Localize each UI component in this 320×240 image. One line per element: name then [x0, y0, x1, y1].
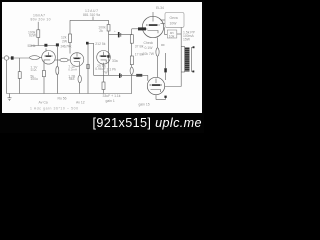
- svg-text:62W: 62W: [29, 34, 37, 38]
- svg-text:Av Ca: Av Ca: [39, 101, 48, 105]
- svg-text:15W: 15W: [183, 38, 191, 42]
- svg-text:gain 15: gain 15: [139, 102, 150, 106]
- svg-text:2k: 2k: [99, 29, 103, 33]
- svg-text:100u: 100u: [30, 77, 38, 81]
- svg-text:531.1k: 531.1k: [28, 44, 36, 48]
- svg-text:10W: 10W: [170, 22, 178, 26]
- svg-text:10k 7W: 10k 7W: [143, 52, 155, 56]
- svg-text:Geva: Geva: [170, 16, 178, 20]
- svg-text:1mA: 1mA: [30, 68, 36, 72]
- svg-text:33a: 33a: [112, 59, 118, 63]
- svg-text:246.7Rk: 246.7Rk: [61, 44, 72, 48]
- svg-text:212 5k: 212 5k: [95, 42, 105, 46]
- svg-text:gain 1: gain 1: [106, 99, 115, 103]
- svg-text:33uF + 1.1k: 33uF + 1.1k: [103, 94, 121, 98]
- svg-text:0.2mA: 0.2mA: [68, 67, 77, 71]
- svg-text:+: +: [114, 29, 116, 33]
- svg-text:12AU7: 12AU7: [85, 9, 98, 13]
- svg-text:5k4: 5k4: [69, 77, 75, 81]
- svg-text:1 Adc gain 36*10 ~ 500: 1 Adc gain 36*10 ~ 500: [30, 106, 78, 110]
- svg-text:Av 12: Av 12: [76, 100, 85, 104]
- svg-text:80v 20v 10: 80v 20v 10: [31, 18, 51, 22]
- svg-text:Check: Check: [144, 41, 154, 45]
- svg-text:10k: 10k: [169, 34, 175, 38]
- svg-text:1.1 Pk: 1.1 Pk: [107, 67, 117, 71]
- svg-text:37 Bk: 37 Bk: [135, 45, 144, 49]
- svg-text:Ro 56: Ro 56: [58, 96, 67, 100]
- svg-text:EL34: EL34: [156, 6, 164, 10]
- svg-text:7W: 7W: [103, 71, 109, 75]
- svg-text:0.1W: 0.1W: [145, 46, 154, 50]
- svg-text:[921x515] uplc.me: [921x515] uplc.me: [93, 116, 202, 130]
- svg-text:2W: 2W: [62, 39, 68, 43]
- svg-text:881 310 9a: 881 310 9a: [83, 13, 100, 17]
